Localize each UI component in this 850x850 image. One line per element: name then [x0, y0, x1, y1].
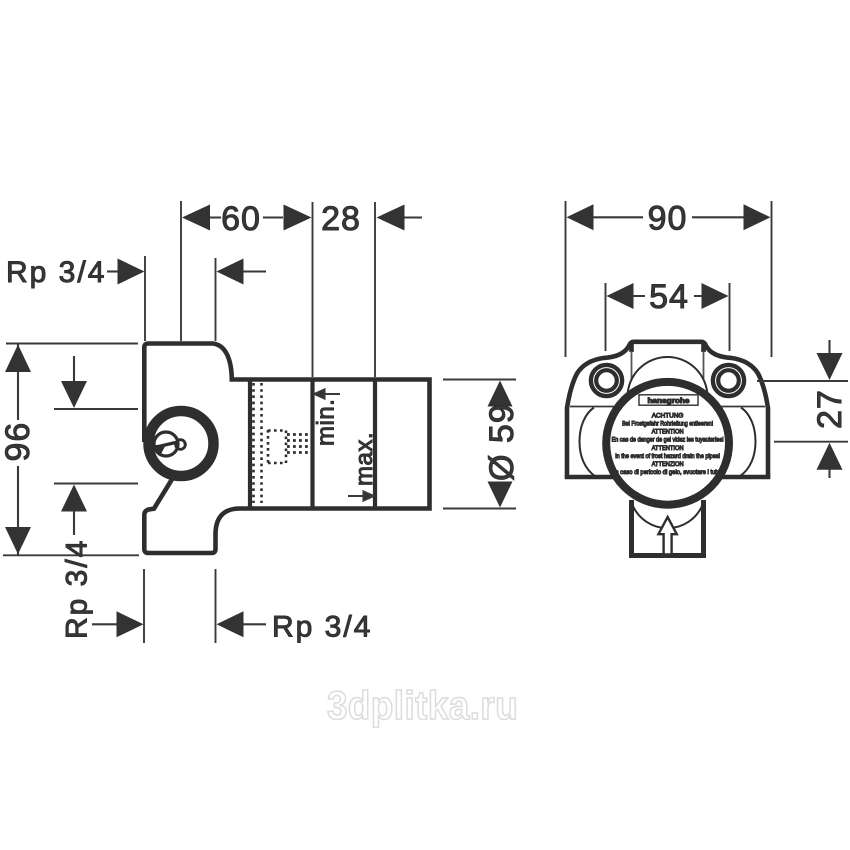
left view: spindle wedge sector	[154, 445, 166, 456]
dim 96: bottom arrow	[5, 527, 31, 554]
left view: hidden valve stem dotted outline	[268, 430, 286, 464]
right view: flow up arrow	[658, 517, 676, 555]
dim 60: dimension line	[210, 216, 283, 218]
right view: left wing lobe	[580, 408, 596, 477]
Rp 3/4 top: extension line x=215.5	[215, 258, 217, 341]
Rp 3/4 top: extension line x=145	[144, 256, 146, 341]
svg-text:Rp 3/4: Rp 3/4	[61, 539, 94, 639]
Rp 3/4 bottom: extension line x=144	[143, 569, 145, 643]
left view: spindle handle circle	[154, 432, 178, 456]
svg-text:60: 60	[221, 200, 261, 238]
dim 96: dimension line	[17, 344, 19, 556]
dim 60/28: extension line x=312.5	[312, 202, 314, 377]
left port dim: lower shaft	[73, 511, 75, 535]
dim 96: top arrow	[5, 345, 31, 373]
left view: max plane wall x=375	[373, 380, 377, 509]
dim 28: extension line x=375	[374, 202, 376, 377]
svg-text:ATTENTION: ATTENTION	[652, 429, 684, 436]
left port dim: upper shaft	[73, 356, 75, 385]
right view: tab face	[632, 342, 704, 352]
svg-text:min.: min.	[313, 399, 340, 446]
hansgrohe logo box	[639, 395, 698, 405]
svg-text:Rp 3/4: Rp 3/4	[6, 256, 106, 289]
dim 90: right arrow	[744, 204, 771, 230]
left view: interior wall x=250	[248, 380, 252, 509]
Rp 3/4 bottom: extension line x=215.5	[215, 569, 217, 643]
svg-text:hansgrohe: hansgrohe	[648, 396, 690, 405]
svg-text:Rp 3/4: Rp 3/4	[272, 611, 372, 644]
dim 27: bottom extension line	[774, 441, 848, 443]
dim 54: right arrow	[702, 283, 729, 309]
left view: min plane wall x=312.5	[310, 380, 314, 509]
dim 28: outside arrow at max line	[377, 205, 405, 231]
right view: pipe inner arc	[632, 505, 702, 529]
Rp 3/4 bottom: leader line left	[92, 623, 118, 625]
svg-text:Ø 59: Ø 59	[483, 403, 521, 481]
dim 90: left arrow	[567, 204, 594, 230]
Rp 3/4 bottom: right-pointing arrow	[117, 611, 144, 637]
dim 54: dimension line	[633, 295, 703, 297]
right view: block bottom edge left	[565, 475, 613, 480]
svg-text:54: 54	[649, 278, 689, 316]
svg-text:90: 90	[648, 200, 688, 238]
svg-text:Bei Frostgefahr Rohrleitung en: Bei Frostgefahr Rohrleitung entleeren!	[622, 421, 713, 428]
dim 28: arrow tail	[405, 216, 423, 218]
left view: body outline	[144, 344, 429, 554]
svg-text:En cas de danger de gel videz: En cas de danger de gel videz les tuyaut…	[612, 437, 724, 444]
left port dim: upper extension line y=409	[54, 408, 138, 410]
left view: hidden thread dot block	[287, 435, 310, 453]
right view: left screw ring inner	[596, 370, 617, 391]
right view: big flange ring	[606, 382, 729, 505]
Rp 3/4 top: arrow tail	[244, 270, 267, 272]
max plane leader arrow	[348, 492, 374, 501]
svg-text:27: 27	[811, 389, 849, 429]
right view: right wing lobe	[740, 408, 756, 477]
left port dim: lower extension line y=483.5	[54, 483, 138, 485]
left view: spindle lever line	[157, 443, 176, 448]
svg-text:ACHTUNG: ACHTUNG	[652, 413, 684, 420]
left port dim: up arrow	[61, 485, 87, 512]
dim 27: down arrow	[817, 353, 843, 380]
dim 60: right arrow	[284, 205, 312, 231]
right view: bottom pipe	[632, 500, 704, 556]
dim 54: extension line left	[605, 283, 607, 351]
left port dim: down arrow	[61, 381, 87, 408]
dim 54: left arrow	[607, 283, 634, 309]
right view: dome thin circle	[628, 357, 708, 397]
svg-text:ATTENZION: ATTENZION	[652, 461, 684, 468]
right view: block top hidden edge left	[570, 406, 614, 408]
dim diam59: up arrow	[488, 381, 513, 407]
left view: spindle tip small circle	[176, 440, 186, 450]
Rp 3/4 bottom: left-pointing arrow	[217, 611, 244, 637]
Rp 3/4 top: left-pointing arrow at flange face	[217, 259, 244, 285]
dim 54: extension line right	[729, 283, 731, 351]
dim diam59: top extension line	[443, 379, 516, 381]
dim 96: bottom extension line	[3, 554, 139, 556]
svg-text:ATTENTION: ATTENTION	[652, 445, 684, 452]
right view: upper silhouette with ears and tab	[567, 342, 768, 477]
Rp 3/4 top: leader line	[107, 270, 119, 272]
right view: right screw ring outer	[713, 365, 744, 396]
dim diam59: bottom extension line	[443, 508, 516, 510]
left view: hidden cartridge dotted column B	[260, 383, 263, 503]
svg-text:96: 96	[0, 422, 37, 462]
dim 60: extension line x=181	[180, 201, 182, 341]
right view: tab hidden side edges	[632, 351, 704, 380]
right view: block top hidden edge right	[721, 406, 765, 408]
dim 96: top extension line	[6, 343, 138, 345]
Rp 3/4 bottom: arrow tail	[244, 623, 267, 625]
right view: block bottom edge right	[722, 475, 770, 480]
dim 27: top extension line	[757, 380, 848, 382]
left view: port ring (big circle)	[149, 411, 214, 476]
dim diam59: down arrow	[488, 482, 513, 508]
svg-text:In the event of frost hazard d: In the event of frost hazard drain the p…	[615, 453, 720, 460]
dim 90: extension line right	[771, 201, 773, 357]
dim 60: left arrow	[182, 205, 210, 231]
right view: right screw ring inner	[718, 370, 739, 391]
Rp 3/4 top: right-pointing arrow	[118, 259, 145, 285]
right view: left screw ring outer	[591, 365, 622, 396]
dim 27: up arrow	[817, 443, 843, 470]
svg-text:max.: max.	[351, 432, 378, 486]
watermark 3dplitka.ru	[327, 686, 518, 726]
dim 90: extension line left	[565, 201, 567, 357]
svg-text:In caso di pericolo di gelo, s: In caso di pericolo di gelo, svuotare i …	[614, 469, 722, 476]
dim 27: lower shaft	[828, 469, 830, 478]
left view: hidden cartridge dotted column A	[252, 383, 255, 503]
dim 27: upper shaft	[828, 340, 830, 356]
min plane leader arrow	[315, 390, 341, 399]
svg-text:28: 28	[321, 200, 361, 238]
dim 90: dimension line	[593, 216, 745, 218]
